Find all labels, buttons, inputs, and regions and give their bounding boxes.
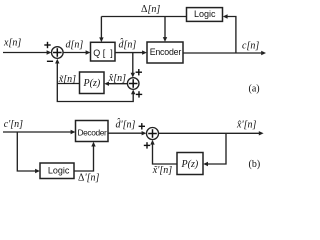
- wire top delta line from quantizer branch to logic (a): [101, 16, 186, 18]
- logic box (a): [187, 8, 223, 22]
- wire x-tilde[n] down along bottom to adder A2 plus input: [57, 84, 135, 102]
- decoder box: [76, 121, 109, 142]
- svg-text:Logic: Logic: [194, 9, 216, 19]
- summing junction A1: [52, 47, 64, 59]
- wire x-hat'[n] adder A3 output: [159, 131, 264, 135]
- label (b): [249, 159, 261, 170]
- plus sign at adder A2 top input: [136, 69, 142, 75]
- svg-text:Δ'[n]: Δ'[n]: [78, 173, 99, 184]
- svg-text:c[n]: c[n]: [242, 40, 259, 51]
- label (a): [249, 84, 260, 95]
- minus sign at adder A1 bottom-left: [47, 60, 53, 62]
- wire logic (b) output up into decoder bottom: [74, 142, 96, 171]
- svg-text:x̃'[n]: x̃'[n]: [152, 165, 172, 176]
- svg-text:x[n]: x[n]: [3, 38, 21, 49]
- svg-text:Encoder: Encoder: [150, 47, 182, 57]
- svg-text:x̃[n]: x̃[n]: [58, 74, 76, 85]
- svg-text:d[n]: d[n]: [66, 40, 84, 51]
- encoder box: [147, 42, 183, 63]
- svg-text:Q [ ]: Q [ ]: [93, 48, 113, 58]
- wire x-tilde[n] from P(z) output to junction: [58, 83, 80, 85]
- predictor box P(z) in encoder: [80, 72, 105, 94]
- summing junction A2: [127, 78, 139, 90]
- wire branch down into quantizer top: [99, 17, 103, 43]
- wire x[n] input to adder A1: [3, 50, 51, 54]
- label x-hat'[n]: [236, 119, 256, 130]
- label x-tilde[n]: [58, 74, 76, 85]
- svg-text:Decoder: Decoder: [78, 127, 107, 137]
- label d[n]: [66, 40, 84, 51]
- predictor box P(z) in decoder: [177, 153, 203, 175]
- label c[n]: [242, 40, 259, 51]
- svg-text:Δ[n]: Δ[n]: [141, 4, 160, 15]
- svg-text:(a): (a): [249, 84, 260, 95]
- wire x-tilde'[n] from P(z) (b) up into adder A3: [150, 140, 177, 164]
- svg-text:d̂'[n]: d̂'[n]: [116, 117, 136, 130]
- label Delta[n]: [141, 4, 160, 15]
- wire feedback x-hat'[n] down into P(z) (b): [203, 133, 226, 166]
- plus sign at adder A1 top-left: [44, 42, 50, 48]
- svg-text:Logic: Logic: [48, 165, 70, 175]
- svg-text:x̂[n]: x̂[n]: [108, 73, 126, 84]
- wire c'[n] input to decoder: [3, 130, 75, 134]
- wire d[n] from adder A1 to quantizer Q: [63, 50, 90, 54]
- quantizer box Q[ ]: [91, 42, 116, 61]
- summing junction A3: [147, 128, 159, 140]
- logic box (b): [40, 163, 74, 179]
- wire branch from d-hat[n] down to adder A2: [131, 53, 135, 78]
- plus sign at adder A2 bottom input: [136, 91, 142, 97]
- svg-text:(b): (b): [249, 159, 261, 170]
- wire x-tilde[n] up into adder A1 minus input: [55, 59, 59, 84]
- wire d-hat[n] from quantizer to encoder: [115, 50, 147, 54]
- svg-text:c'[n]: c'[n]: [4, 119, 23, 130]
- wire c[n] encoder output: [183, 51, 266, 55]
- label Delta'[n]: [78, 173, 99, 184]
- svg-text:d̂[n]: d̂[n]: [119, 37, 137, 50]
- svg-text:P(z): P(z): [181, 159, 199, 170]
- label c'[n]: [4, 119, 23, 130]
- svg-text:P(z): P(z): [83, 78, 101, 89]
- plus sign at adder A3 bottom input: [144, 142, 150, 148]
- plus sign at adder A3 left input: [139, 123, 145, 129]
- label d-hat'[n]: [116, 117, 136, 130]
- wire d-hat'[n] from decoder to adder A3: [108, 131, 146, 135]
- wire branch down into encoder top: [163, 17, 167, 42]
- label x-tilde'[n]: [152, 165, 172, 176]
- wire feedback from c[n] up to logic box (a): [223, 14, 236, 53]
- wire x-hat[n] from adder A2 to predictor P(z): [104, 82, 127, 86]
- label d-hat[n]: [119, 37, 137, 50]
- label x-hat[n]: [108, 73, 126, 84]
- wire branch from c'[n] down to logic (b): [17, 132, 40, 173]
- svg-text:x̂'[n]: x̂'[n]: [236, 119, 256, 130]
- label x[n]: [3, 38, 21, 49]
